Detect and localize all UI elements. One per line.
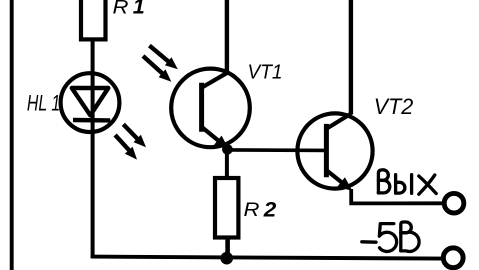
transistor VT2 base bar bbox=[324, 124, 329, 177]
frame border left bbox=[10, 0, 14, 270]
LED HL1 cathode bar bbox=[73, 118, 110, 123]
svg-text:1: 1 bbox=[133, 0, 145, 19]
terminal -5v bbox=[443, 248, 463, 268]
transistor VT1 collector stroke bbox=[202, 73, 228, 88]
LED HL1 circle bbox=[61, 73, 120, 132]
label -5v bbox=[362, 222, 419, 251]
junction node rail bbox=[220, 252, 233, 265]
svg-text:VT1: VT1 bbox=[248, 62, 283, 84]
svg-text:2: 2 bbox=[263, 199, 277, 222]
transistor VT2 circle bbox=[297, 113, 372, 188]
wire VT2 collector bbox=[349, 0, 353, 115]
svg-text:R: R bbox=[113, 0, 129, 19]
label output vyh bbox=[378, 170, 436, 194]
resistor R1 bbox=[81, 0, 106, 39]
wire node to R2 bbox=[225, 149, 229, 178]
svg-text:VT2: VT2 bbox=[374, 94, 414, 119]
resistor R2 bbox=[215, 178, 238, 238]
terminal output bbox=[444, 193, 464, 213]
wire R1 to HL1 to bottom rail bbox=[91, 39, 95, 258]
label R2 bbox=[244, 199, 277, 222]
wire VT2 emitter to output bbox=[351, 189, 443, 203]
light emission arrow 1 bbox=[123, 124, 146, 147]
transistor VT2 emitter with arrow bbox=[327, 171, 353, 191]
junction node VT1 emitter bbox=[222, 144, 233, 155]
light reception arrow 1 bbox=[149, 46, 177, 70]
wire VT1 collector bbox=[225, 0, 229, 75]
svg-text:R: R bbox=[244, 199, 260, 221]
light emission arrow 2 bbox=[115, 135, 137, 160]
transistor VT1 base bar bbox=[199, 83, 204, 132]
svg-text:HL 1: HL 1 bbox=[27, 90, 60, 115]
transistor VT2 collector stroke bbox=[327, 114, 351, 129]
transistor VT1 circle bbox=[171, 69, 250, 148]
transistor VT1 emitter with arrow bbox=[202, 127, 229, 149]
wire node to VT2 base bbox=[227, 148, 328, 152]
wire bottom rail -5v bbox=[91, 257, 443, 259]
light reception arrow 2 bbox=[143, 56, 171, 82]
LED HL1 triangle bbox=[72, 88, 109, 115]
wire R2 to rail bbox=[225, 238, 230, 259]
label R1 bbox=[113, 0, 145, 19]
